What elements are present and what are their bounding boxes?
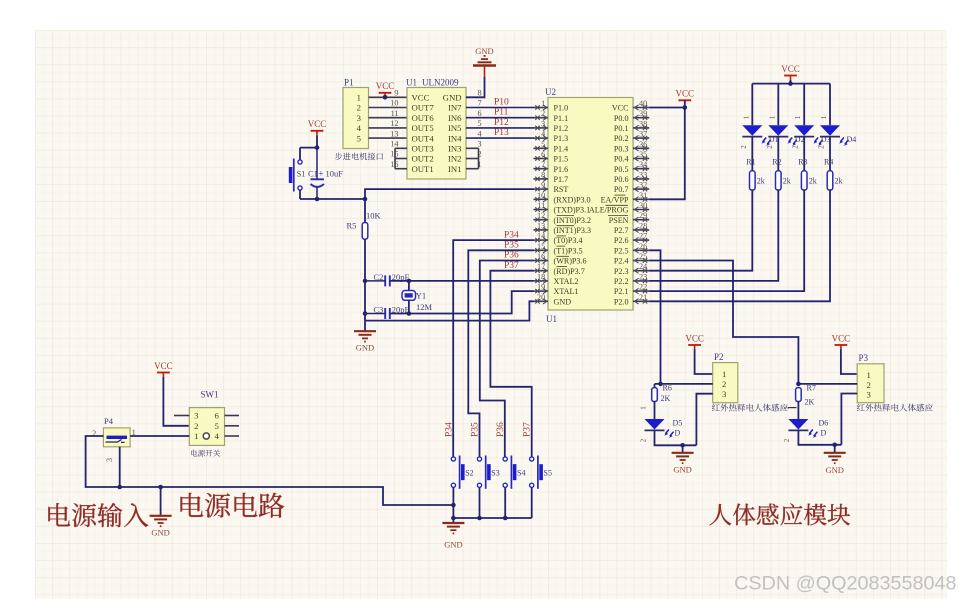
capacitor C3 20pF: [365, 305, 410, 319]
svg-text:P2.4: P2.4: [614, 257, 629, 266]
svg-text:11: 11: [391, 109, 399, 118]
svg-text:P2.7: P2.7: [614, 226, 629, 235]
wire ULN IN7 to U2 P1.0: [466, 107, 534, 109]
wire bottom rail S1/C1 to R5 node: [300, 198, 365, 200]
svg-text:P13: P13: [494, 128, 509, 138]
svg-text:4: 4: [357, 123, 362, 133]
wire P2 pin3 down: [696, 394, 712, 446]
wire ULN IN6 to U2 P1.1: [466, 117, 534, 119]
svg-text:6: 6: [478, 109, 482, 118]
watermark CSDN: [734, 573, 956, 595]
svg-text:(INT1)P3.3: (INT1)P3.3: [554, 226, 592, 235]
svg-text:P12: P12: [494, 118, 509, 128]
connector P3: [857, 353, 884, 403]
svg-text:D: D: [675, 429, 681, 438]
svg-text:2: 2: [541, 109, 545, 118]
op-amp U2 8051 MCU: [537, 87, 647, 324]
svg-text:R1: R1: [746, 158, 755, 167]
svg-text:P0.3: P0.3: [614, 144, 629, 153]
resistor R2 2k: [772, 158, 791, 191]
svg-text:OUT6: OUT6: [412, 113, 435, 123]
wire P1 pin2 to ULN pin 10: [369, 107, 408, 109]
diode D2 (LED): [766, 115, 805, 149]
svg-text:P1.0: P1.0: [554, 104, 569, 113]
resistor R7 2K: [796, 384, 816, 407]
svg-text:R4: R4: [824, 158, 833, 167]
svg-text:S3: S3: [491, 469, 499, 478]
svg-text:3: 3: [867, 389, 871, 399]
junction LED vcc bus: [788, 81, 793, 86]
junction gnd bus: [477, 516, 482, 521]
svg-text:P1: P1: [344, 78, 354, 88]
diode D4 (LED): [818, 115, 857, 149]
svg-text:P2.0: P2.0: [614, 297, 629, 306]
svg-text:1: 1: [768, 115, 776, 119]
svg-text:4: 4: [478, 129, 482, 138]
diode D1 (LED): [740, 115, 779, 149]
svg-text:OUT3: OUT3: [412, 144, 434, 154]
svg-text:10K: 10K: [366, 211, 382, 221]
junction gnd bus: [451, 516, 456, 521]
svg-text:(RD)P3.7: (RD)P3.7: [554, 267, 585, 276]
wire P3 pin3 down: [841, 394, 857, 445]
svg-text:XTAL1: XTAL1: [554, 287, 579, 296]
svg-text:IN4: IN4: [448, 133, 462, 143]
wire P2 pin2 to R6: [655, 383, 713, 385]
junction crystal bottom: [407, 311, 412, 316]
svg-text:P1.4: P1.4: [554, 144, 569, 153]
svg-text:1: 1: [820, 115, 828, 119]
svg-text:P0.5: P0.5: [614, 165, 629, 174]
svg-text:IN2: IN2: [448, 154, 462, 164]
svg-text:3: 3: [722, 389, 726, 399]
svg-text:VCC: VCC: [154, 361, 173, 371]
svg-text:P1.3: P1.3: [554, 134, 569, 143]
svg-text:13: 13: [390, 129, 398, 138]
svg-text:2: 2: [783, 438, 791, 442]
wire P3.4 to S2: [453, 240, 533, 457]
svg-text:R6: R6: [663, 384, 672, 393]
svg-text:+: +: [318, 169, 323, 179]
wire D6 to gnd rail: [798, 431, 841, 445]
svg-text:5: 5: [478, 119, 482, 128]
label: power input title: [48, 503, 148, 527]
svg-text:10uF: 10uF: [326, 168, 344, 178]
wire VCC to P3 pin1: [841, 350, 857, 375]
label: pyroelectric human sensor (P2): [712, 404, 797, 412]
wire P3.6 to S4: [480, 261, 534, 457]
wire VCC bus down to D3: [803, 84, 805, 126]
svg-text:P10: P10: [494, 98, 509, 108]
svg-text:VCC: VCC: [832, 333, 851, 343]
svg-text:P36: P36: [504, 251, 519, 261]
wire P1 pin1 to ULN pin 9: [369, 96, 408, 98]
svg-text:12M: 12M: [416, 302, 433, 312]
junction C1 top: [315, 145, 320, 150]
junction C3 left: [363, 311, 368, 316]
ULN pins 14-16 stubs chained: [395, 148, 407, 168]
diode D6 (LED): [783, 402, 828, 443]
svg-text:GND: GND: [356, 343, 374, 353]
svg-text:D5: D5: [673, 419, 683, 428]
diode D5 (LED): [640, 402, 683, 443]
svg-text:IN6: IN6: [448, 113, 462, 123]
diode D3 (LED): [792, 115, 831, 149]
wire R2 to U2 P2.2: [649, 190, 778, 281]
junction gnd bus: [503, 516, 508, 521]
wire S2 bottom to gnd bus: [452, 488, 454, 519]
wire C3 to XTAL1 riser: [390, 291, 534, 313]
wire P4 pin2 to gnd rail: [86, 436, 454, 505]
svg-text:VCC: VCC: [676, 89, 695, 99]
wire VCC to P2 pin1: [695, 350, 713, 375]
svg-text:P2.3: P2.3: [614, 267, 629, 276]
wire VCC to EA/VPP: [649, 100, 685, 199]
svg-text:GND: GND: [475, 46, 493, 56]
svg-text:RST: RST: [554, 185, 569, 194]
svg-text:5: 5: [541, 140, 545, 149]
svg-text:2k: 2k: [757, 177, 765, 186]
wire D1 to R1: [751, 137, 753, 171]
connector P1 (stepper motor header): [343, 78, 369, 149]
power VCC at U2: [676, 89, 695, 105]
svg-text:2: 2: [722, 379, 726, 389]
wire VCC to SW1 pin2: [163, 377, 189, 426]
power VCC at P2: [685, 333, 704, 349]
wire D2 to R2: [777, 137, 779, 171]
svg-text:1: 1: [867, 370, 871, 380]
wire VCC to S1/C1 top rail: [316, 135, 318, 147]
svg-text:2K: 2K: [661, 394, 671, 403]
svg-text:1: 1: [357, 93, 361, 103]
svg-text:10: 10: [390, 99, 398, 108]
wire U2 P2.5 to sensor P2: [649, 250, 660, 384]
connector P2: [713, 352, 738, 403]
svg-text:VCC: VCC: [412, 93, 430, 103]
svg-text:S5: S5: [544, 469, 552, 478]
svg-text:P2.1: P2.1: [614, 287, 629, 296]
svg-text:OUT2: OUT2: [412, 154, 434, 164]
svg-text:2: 2: [792, 145, 800, 149]
wire ULN pin8 GND: [466, 77, 485, 97]
svg-text:D: D: [821, 429, 827, 438]
svg-text:6: 6: [215, 411, 220, 421]
svg-text:P11: P11: [494, 108, 509, 118]
svg-text:OUT1: OUT1: [412, 164, 434, 174]
label: stepper motor interface caption: [335, 153, 383, 161]
wire D4 to R4: [829, 137, 831, 171]
svg-text:VCC: VCC: [376, 81, 395, 91]
svg-text:2: 2: [194, 421, 198, 431]
junction sensor P3 net: [796, 382, 801, 387]
wire R1 to U2 P2.3: [649, 190, 752, 271]
wire D5 to gnd rail: [655, 431, 697, 446]
pushbutton S4: [503, 456, 525, 489]
svg-text:(T1)P3.5: (T1)P3.5: [554, 246, 583, 255]
wire P3.7 to S5: [490, 271, 533, 457]
svg-text:3: 3: [478, 140, 482, 149]
junction C1 bottom: [315, 197, 320, 202]
wire VCC bus down to D2: [777, 84, 779, 126]
svg-text:(T0)P3.4: (T0)P3.4: [554, 236, 583, 245]
svg-text:IN3: IN3: [448, 144, 462, 154]
svg-text:IN7: IN7: [448, 103, 462, 113]
svg-text:GND: GND: [443, 93, 462, 103]
switch SW1 power switch: [174, 390, 239, 446]
svg-text:GND: GND: [151, 528, 169, 538]
svg-text:R3: R3: [798, 158, 807, 167]
svg-text:P3: P3: [859, 353, 869, 363]
svg-text:GND: GND: [825, 465, 843, 475]
svg-text:S1: S1: [297, 170, 305, 179]
svg-text:S2: S2: [465, 469, 473, 478]
svg-text:D6: D6: [819, 419, 829, 428]
svg-text:EA/VPP: EA/VPP: [601, 195, 629, 204]
wire C2 node down to C3 node and gnd rail: [364, 281, 366, 321]
svg-text:P0.4: P0.4: [614, 155, 629, 164]
wire R3 to U2 P2.1: [649, 190, 804, 291]
svg-text:7: 7: [541, 160, 545, 169]
svg-text:6: 6: [541, 150, 545, 159]
svg-text:SW1: SW1: [201, 390, 219, 400]
U2 right pin stubs with no-ERC marks: [633, 105, 649, 304]
wire VCC bus down to D1: [751, 84, 753, 126]
ground at buttons: [442, 518, 464, 550]
wire ULN IN4 to U2 P1.3: [466, 137, 534, 139]
ground at power input: [150, 487, 172, 538]
svg-text:U1: U1: [406, 78, 417, 88]
power VCC at SW1: [154, 361, 173, 377]
svg-text:P1.5: P1.5: [554, 155, 569, 164]
svg-text:PSEN: PSEN: [609, 216, 629, 225]
svg-text:P1.6: P1.6: [554, 165, 569, 174]
capacitor C2 20pF: [365, 272, 410, 286]
svg-text:P34: P34: [504, 230, 519, 240]
junction P3 gnd: [832, 443, 837, 448]
svg-text:P35: P35: [504, 241, 519, 251]
svg-text:1: 1: [742, 115, 750, 119]
svg-text:2: 2: [766, 145, 774, 149]
wire S1 top: [299, 148, 301, 160]
junction P2 gnd: [680, 443, 685, 448]
svg-text:CSDN @QQ2083558048: CSDN @QQ2083558048: [734, 573, 956, 595]
svg-text:D4: D4: [847, 135, 857, 144]
junction power feed at S2 column: [451, 503, 456, 508]
wire RST net to U2 pin 9: [365, 189, 534, 199]
svg-text:IN5: IN5: [448, 123, 462, 133]
power VCC at S1/C1: [308, 119, 327, 135]
svg-text:(WR)P3.6: (WR)P3.6: [554, 257, 587, 266]
wire button ground bus: [453, 517, 531, 519]
svg-text:2: 2: [740, 145, 748, 149]
wire C2 to U2 XTAL2: [390, 280, 534, 282]
ground at ULN pin 8: [473, 46, 496, 66]
junction crystal top: [407, 279, 412, 284]
svg-text:P0.6: P0.6: [614, 175, 629, 184]
svg-text:VCC: VCC: [308, 119, 327, 129]
pushbutton S5: [530, 456, 552, 489]
svg-text:P2.6: P2.6: [614, 236, 629, 245]
resistor R1 2k: [746, 158, 765, 191]
svg-text:2: 2: [818, 145, 826, 149]
svg-text:(INT0)P3.2: (INT0)P3.2: [554, 216, 592, 225]
svg-text:VCC: VCC: [781, 64, 800, 74]
junction RST node: [363, 197, 368, 202]
wire P3.5 to S3: [468, 250, 533, 456]
svg-text:14: 14: [390, 140, 398, 149]
wire S4 bottom to gnd bus: [504, 488, 506, 519]
label: power switch caption: [191, 450, 220, 457]
wire P1 pin3 to ULN pin 11: [369, 117, 408, 119]
capacitor C1 10uF: [308, 148, 343, 199]
wire P1 pin4 to ULN pin 12: [369, 127, 408, 129]
wire top rail S1 to C1: [300, 147, 317, 149]
svg-text:4: 4: [215, 431, 220, 441]
wire U2 P2.4 to sensor P3: [649, 261, 798, 384]
wire gnd rail to U2 GND pin: [365, 301, 534, 320]
svg-text:P2.5: P2.5: [614, 246, 629, 255]
svg-text:P4: P4: [104, 416, 114, 426]
svg-text:(RXD)P3.0: (RXD)P3.0: [554, 195, 591, 204]
wire S3 bottom to gnd bus: [479, 488, 481, 519]
svg-text:P0.2: P0.2: [614, 134, 629, 143]
svg-text:P37: P37: [522, 422, 532, 437]
svg-text:2: 2: [640, 438, 648, 442]
svg-text:1: 1: [194, 431, 198, 441]
label: power circuit title: [181, 493, 285, 518]
power VCC at ULN pin 9: [376, 81, 395, 99]
svg-text:2: 2: [357, 103, 361, 113]
svg-text:OUT5: OUT5: [412, 123, 434, 133]
U2 left pin stubs with no-ERC marks: [534, 105, 549, 304]
svg-text:7: 7: [478, 99, 482, 108]
wire P4 pin1 to SW1 pin1: [130, 435, 189, 437]
svg-text:GND: GND: [444, 540, 462, 550]
svg-text:P2.2: P2.2: [614, 277, 629, 286]
svg-text:1: 1: [722, 369, 726, 379]
junction P4 pin3: [117, 485, 122, 490]
svg-text:U2: U2: [545, 87, 556, 97]
junction sensor P2 net: [658, 382, 663, 387]
svg-text:P0.1: P0.1: [614, 124, 629, 133]
junction ULN VCC: [383, 95, 388, 100]
pushbutton S2: [451, 456, 473, 489]
resistor R5 10K: [347, 199, 382, 239]
wire P3 pin2 to R7: [798, 383, 857, 385]
power VCC at LED bank: [781, 64, 800, 80]
svg-text:P1.7: P1.7: [554, 175, 569, 184]
svg-text:3: 3: [357, 113, 361, 123]
svg-text:P36: P36: [496, 422, 506, 437]
svg-text:GND: GND: [673, 465, 691, 475]
svg-text:P35: P35: [470, 422, 480, 437]
wire U2 pin40 VCC: [649, 107, 685, 109]
wire R4 to U2 P2.0: [649, 190, 830, 301]
svg-text:VCC: VCC: [685, 333, 704, 343]
label: pyroelectric human sensor (P3): [857, 404, 933, 412]
wire P1 pin5 to ULN pin 13: [369, 137, 408, 139]
svg-text:P0.0: P0.0: [614, 114, 629, 123]
op-amp U1 ULN2009 driver IC: [390, 78, 481, 180]
svg-text:IN1: IN1: [448, 164, 462, 174]
svg-text:VCC: VCC: [612, 104, 629, 113]
wire ULN IN5 to U2 P1.2: [466, 127, 534, 129]
svg-text:XTAL2: XTAL2: [554, 277, 579, 286]
svg-text:9: 9: [394, 89, 398, 98]
wire VCC bus down to D4: [829, 84, 831, 126]
svg-text:ULN2009: ULN2009: [422, 78, 459, 88]
svg-text:1: 1: [541, 99, 545, 108]
svg-text:ALE/PROG: ALE/PROG: [589, 206, 629, 215]
wire R5 to C2 node: [364, 239, 366, 281]
power VCC at P3: [832, 333, 851, 349]
svg-text:P2: P2: [714, 352, 724, 362]
ground at crystal: [354, 321, 376, 353]
svg-text:9: 9: [541, 181, 545, 190]
wire S5 bottom to gnd bus: [531, 488, 533, 519]
svg-text:2k: 2k: [809, 177, 817, 186]
ground at P3: [824, 445, 846, 475]
svg-text:3: 3: [541, 119, 545, 128]
junction C2 left: [363, 279, 368, 284]
svg-text:R5: R5: [347, 221, 357, 231]
svg-text:8: 8: [541, 170, 545, 179]
svg-text:P0.7: P0.7: [614, 185, 629, 194]
resistor R4 2k: [824, 158, 843, 191]
ULN pins 1-3 stubs chained: [466, 148, 479, 168]
svg-text:8: 8: [478, 89, 482, 98]
svg-text:R7: R7: [807, 384, 816, 393]
svg-text:5: 5: [357, 133, 361, 143]
wire P4 pin3 down: [119, 447, 121, 487]
crystal Y1 12M: [402, 281, 433, 314]
svg-text:P34: P34: [445, 422, 455, 437]
svg-text:2K: 2K: [805, 398, 815, 407]
resistor R6 2K: [652, 384, 672, 403]
svg-text:OUT4: OUT4: [412, 133, 435, 143]
wire D3 to R3: [803, 137, 805, 171]
junction power gnd: [158, 485, 163, 490]
wire LED vcc bus: [752, 83, 830, 85]
pushbutton S1: [289, 159, 305, 192]
resistor R3 2k: [798, 158, 817, 191]
svg-text:1: 1: [783, 406, 791, 410]
svg-text:P1.2: P1.2: [554, 124, 569, 133]
svg-text:Y1: Y1: [416, 291, 426, 301]
label: human sensing module title: [709, 503, 850, 525]
svg-text:2: 2: [867, 380, 871, 390]
svg-text:3: 3: [105, 458, 114, 462]
svg-text:S4: S4: [517, 469, 525, 478]
svg-text:12: 12: [390, 119, 398, 128]
svg-text:4: 4: [541, 130, 545, 139]
connector P4 power jack: [92, 416, 135, 462]
svg-text:1: 1: [794, 115, 802, 119]
svg-text:2k: 2k: [783, 177, 791, 186]
svg-text:3: 3: [194, 411, 198, 421]
svg-text:5: 5: [215, 421, 219, 431]
pushbutton S3: [477, 456, 499, 489]
svg-text:(TXD)P3.1: (TXD)P3.1: [554, 206, 591, 215]
junction U2 VCC: [683, 105, 688, 110]
svg-text:R2: R2: [772, 158, 781, 167]
svg-text:GND: GND: [554, 297, 572, 306]
svg-text:1: 1: [640, 406, 648, 410]
svg-text:OUT7: OUT7: [412, 103, 435, 113]
svg-text:P37: P37: [504, 261, 519, 271]
svg-text:2k: 2k: [835, 177, 843, 186]
ground at P2: [672, 445, 694, 474]
